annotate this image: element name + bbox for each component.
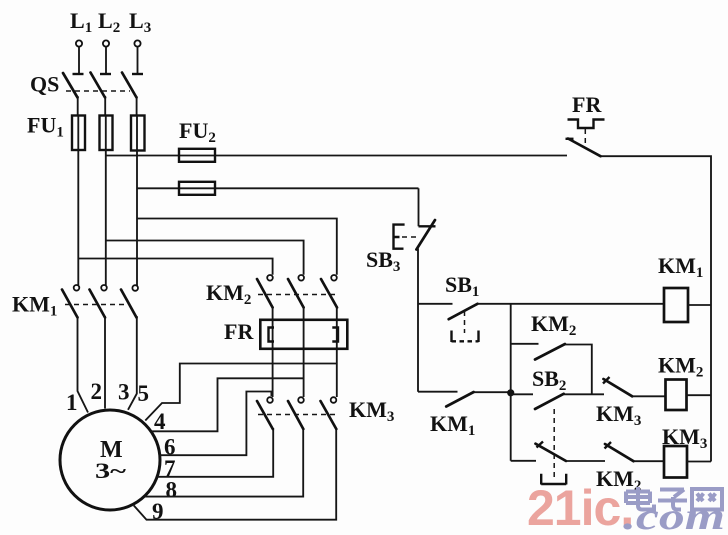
svg-text:8: 8 [166,478,178,503]
wire branch L3 to KM2 pole3 [137,219,337,275]
contactor KM2 pole1 contact circle [267,275,273,281]
contactor KM2 pole2 blade [288,279,304,308]
terminal L1 [76,40,82,46]
contactor KM1 pole2 blade [90,290,106,318]
contactor KM1 pole1 blade [62,290,78,318]
svg-text:KM3: KM3 [596,401,641,429]
wire L2 drop to QS [105,47,107,74]
wire L3 phase drop below FU1 [136,151,138,286]
node junction dot [507,389,514,396]
svg-text:.com: .com [623,496,725,535]
wire motor mid terminal riser [151,378,304,431]
switch QS pole3 fixed bar [132,73,143,75]
svg-text:KM1: KM1 [430,411,475,439]
svg-text:FR: FR [572,92,602,117]
svg-text:FU1: FU1 [27,113,64,141]
contact KM1 aux NO blade [446,392,474,407]
watermark chinese char wang [692,489,722,510]
contactor KM1 pole1 contact circle [74,285,80,291]
wire row2 dot to SB2NO [511,393,533,395]
contactor KM3 pole1 contact circle [267,397,273,403]
wire L1 drop to QS [78,47,80,74]
wire row3 SB2NC to KM2NC [566,460,605,462]
wire KM1 pole3 to motor terminal 3 [128,316,137,410]
switch QS pole2 fixed bar [100,73,111,75]
button SB1 NO blade [449,304,478,319]
wire KM2 coil to right rail [687,394,712,396]
contact KM2 interlock tick [605,442,612,449]
wire KM2 pole2 into FR [303,306,305,397]
contactor KM2 linkage dashed [258,294,335,296]
wire motor terminal 7 to KM3 pole1 [158,428,274,477]
svg-text:KM2: KM2 [658,353,703,381]
wire KM2 pole1 into FR [272,306,274,397]
button SB2 linkage dashed [553,409,555,479]
contactor KM3 pole2 contact circle [298,397,304,403]
switch QS pole1 fixed bar [73,73,84,75]
svg-text:L1: L1 [70,8,92,36]
wire center rail [510,304,512,461]
wire motor terminal 8 to KM3 pole2 [145,428,304,497]
svg-text:SB2: SB2 [532,366,566,394]
wire KM2 selfhold left stub [511,343,539,345]
motor M body circle [60,410,160,510]
contactor KM1 linkage dashed [65,304,128,306]
svg-text:KM2: KM2 [531,311,576,339]
contactor KM3 pole3 contact circle [331,397,337,403]
wire SB1 row to KM1 coil [478,303,665,305]
switch QS pole2 blade [91,73,106,98]
watermark chinese char dian [626,487,654,510]
wire KM3 coil to right rail [687,461,711,463]
coil KM2 body [666,380,687,411]
switch QS linkage dashed [66,90,130,92]
contactor KM1 pole3 blade [121,290,137,318]
wire KM1 pole1 to motor terminal 1 [78,316,89,413]
svg-text:QS: QS [30,72,59,97]
wire QS pole1 to FU1 [77,96,79,116]
button SB3 upper wire [418,188,420,226]
contactor KM1 pole2 contact circle [101,285,107,291]
contact KM3 interlock NC blade [604,379,633,396]
svg-text:1: 1 [66,390,78,415]
wire KM1 coil to right rail [688,304,711,306]
wire L2 phase drop below FU1 [105,150,107,285]
svg-text:L3: L3 [129,8,151,36]
fuse FU1 b body [100,116,113,151]
watermark chinese char zi [658,490,687,510]
svg-text:L2: L2 [98,8,120,36]
switch QS pole1 blade [63,73,78,98]
wire L1 phase drop below FU1 [77,150,79,285]
svg-text:3: 3 [118,380,130,405]
switch QS pole3 blade [122,73,137,98]
svg-text:KM3: KM3 [349,397,394,425]
svg-text:2: 2 [91,379,103,404]
coil KM1 body [664,288,688,322]
wire L3 drop to QS [137,47,139,74]
terminal L3 [134,40,140,46]
svg-text:KM2: KM2 [206,280,251,308]
wire branch L2 to KM2 pole2 [106,241,304,275]
fuse FU1 c element wire [136,116,138,151]
contactor KM2 pole1 blade [257,279,273,308]
svg-text:KM3: KM3 [662,424,707,452]
contactor KM3 pole3 blade [321,401,337,429]
svg-text:KM1: KM1 [12,292,57,320]
thermal relay FR left heater bracket [269,328,275,342]
wire motor terminal 9 to KM3 pole3 [134,428,336,520]
svg-text:4: 4 [154,409,166,434]
wire KM1 pole2 to motor terminal 2 [104,316,106,409]
contactor KM3 pole2 blade [288,401,303,429]
svg-text:5: 5 [138,381,150,406]
wire control feed line 2 from L3 at y188 [137,187,419,189]
button SB1 actuator bracket [452,331,479,343]
wire control feed line from L2 at y155 [106,155,567,157]
wire motor terminal 4 riser [145,364,336,421]
wire KM2 pole3 into FR [336,306,338,397]
thermal relay FR trip linkage dashed [584,129,586,145]
fuse FU1 c body [131,116,145,151]
thermal relay FR right heater bracket [332,328,338,342]
wire KM2 selfhold right to drop [565,345,592,395]
thermal relay FR trip NC blade [568,139,601,157]
wire KM1 aux row left stub [418,391,458,393]
button SB3 NC blade [416,220,435,250]
svg-text:3~: 3~ [95,458,127,483]
svg-text:SB3: SB3 [366,247,400,275]
contact KM3 interlock tick [603,377,610,384]
fuse FU1 a element wire [77,116,79,151]
contactor KM3 linkage dashed [258,414,335,416]
fuse FU1 b element wire [105,116,107,151]
svg-text:KM1: KM1 [658,253,703,281]
wire row3 KM2NC to KM3 coil [634,460,665,462]
wire KM1 aux to junction [474,391,511,393]
button SB2 NC blade [536,444,567,461]
thermal relay FR trip element symbol [568,120,605,129]
wire top feed right of FR to right rail [601,156,712,305]
fuse FU2 a body [179,149,215,162]
button SB3 actuator link dashed [402,236,418,238]
svg-text:SB1: SB1 [445,272,479,300]
button SB3 fixed contact bar [419,225,436,227]
button SB2 NO blade [535,394,564,409]
thermal relay FR trip contact tick [566,138,574,140]
button SB1 actuator link dashed [464,311,466,333]
wire right rail lower part [710,305,712,462]
wire row2 KM3NC to KM2 coil [632,395,665,397]
wire QS pole3 to FU1 [136,96,138,116]
svg-text:FU2: FU2 [179,118,216,146]
thermal relay FR heater box [260,320,347,349]
button SB2 NC tick [537,442,544,448]
contact KM2 selfhold NO blade [535,344,565,360]
contactor KM2 pole3 blade [321,279,337,308]
fuse FU1 a body [72,116,85,151]
wire left rail below SB3 [417,249,419,392]
contact KM2 interlock NC blade [605,444,634,461]
wire row3 corner to SB2NC [511,460,536,462]
contactor KM2 pole3 contact circle [331,275,337,281]
button SB3 actuator E [394,225,405,249]
svg-text:21ic.: 21ic. [527,480,633,535]
wire QS pole2 to FU1 [104,96,106,116]
fuse FU2 b body [179,182,215,195]
contactor KM1 pole3 contact circle [132,285,138,291]
coil KM3 body [664,446,687,478]
wire branch L1 to KM2 pole1 [78,259,272,275]
button SB2 actuator bracket [541,474,566,485]
wire SB1 row left stub [418,303,453,305]
terminal L2 [103,40,109,46]
contactor KM2 pole2 contact circle [298,275,304,281]
wire row2 SB2NO to KM3NC [564,393,604,395]
wire motor terminal 6 riser [160,392,272,456]
contactor KM3 pole1 blade [257,401,273,429]
svg-text:FR: FR [224,319,254,344]
